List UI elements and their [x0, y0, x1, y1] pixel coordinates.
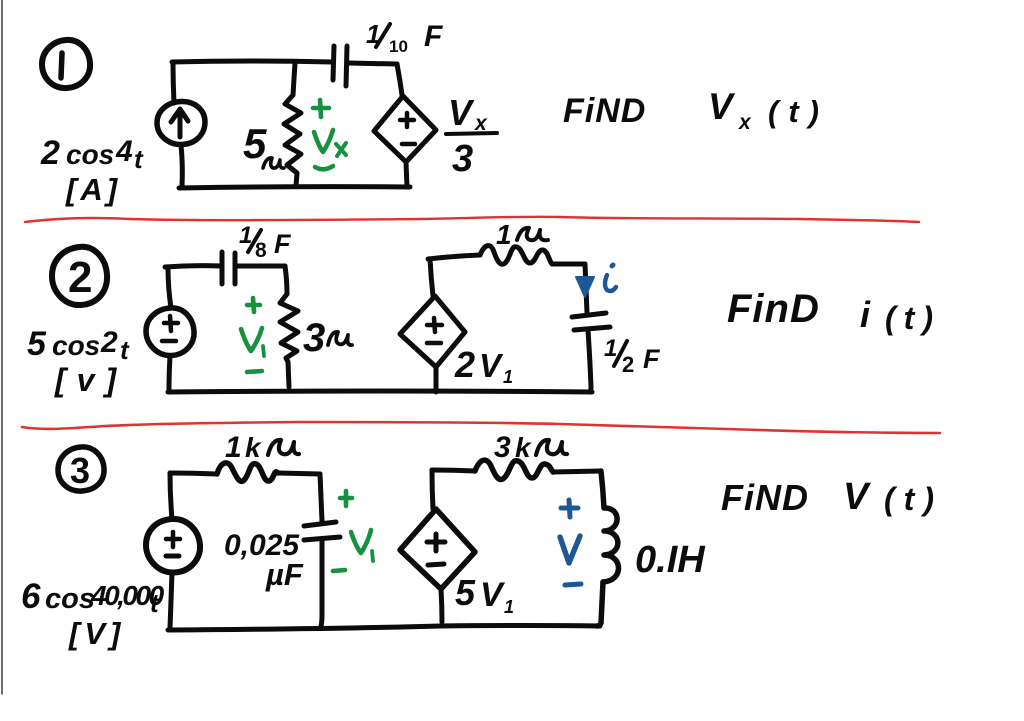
node label plus (blue) V c3: [561, 500, 578, 517]
node label V1 (green) c3: [351, 530, 373, 561]
source label 6cos40000t: [21, 577, 165, 618]
svg-text:2: 2: [100, 326, 118, 359]
wire right corner down to dep source: [397, 64, 402, 95]
wire resistor to right corner c2: [552, 262, 585, 267]
node label minus (green): [315, 166, 333, 169]
value label 1/10 F: [366, 19, 443, 56]
resistor R 1ohm: [480, 246, 552, 265]
task text Find i(t): [727, 287, 941, 336]
svg-text:2: 2: [454, 344, 475, 385]
svg-text:3: 3: [303, 316, 325, 360]
svg-text:(t): (t): [768, 94, 829, 129]
voltage source V 5cos2t: [146, 308, 194, 356]
svg-text:3: 3: [70, 450, 90, 491]
capacitor C1 1/10F right plate: [346, 46, 347, 86]
problem number 3 circle: [58, 447, 104, 491]
capacitor C 1/8F right plate: [233, 253, 238, 284]
svg-text:[A]: [A]: [65, 172, 121, 207]
svg-text:(t): (t): [885, 300, 941, 336]
svg-text:2: 2: [68, 253, 92, 302]
wire bottom rail c3: [168, 626, 600, 631]
resistor R 3k: [475, 460, 553, 479]
task text Find Vx(t): [563, 86, 829, 134]
capacitor C 1/2F bottom plate: [574, 327, 610, 330]
wire source top to top rail c2: [168, 267, 171, 308]
svg-text:F: F: [424, 20, 443, 53]
wire top rail: [172, 61, 333, 62]
svg-text:V: V: [480, 576, 506, 614]
value label 2V1: [454, 344, 513, 387]
wire cap to corner c2: [236, 264, 285, 269]
wire cap to bottom rail c3: [321, 541, 322, 626]
svg-text:t: t: [120, 335, 130, 365]
value label 3k ohm: [494, 431, 532, 464]
wire resistor 3k to right corner: [553, 471, 601, 472]
svg-text:1: 1: [604, 335, 617, 362]
wire top rail left c3: [170, 473, 217, 474]
svg-text:3: 3: [452, 138, 473, 180]
svg-text:FiND: FiND: [721, 477, 809, 518]
svg-text:(t): (t): [884, 481, 943, 517]
dependent source 5V1 diamond: [400, 509, 475, 589]
wire inductor to bottom rail c3: [597, 582, 603, 626]
svg-text:V: V: [448, 92, 475, 133]
wire source bottom to bottom rail c3: [170, 573, 172, 628]
dep source 2V1 minus: [427, 341, 441, 346]
svg-text:cos: cos: [52, 330, 100, 361]
svg-text:k: k: [515, 432, 532, 463]
wire dep source 5V1 bottom: [441, 589, 442, 622]
node label minus (blue) c3: [565, 584, 581, 585]
svg-text:[v]: [v]: [54, 362, 127, 398]
svg-text:8: 8: [255, 239, 267, 262]
dependent source 2V1 diamond: [400, 296, 465, 367]
current source I1: [157, 101, 205, 144]
task text Find V(t): [721, 476, 943, 518]
svg-text:1: 1: [503, 367, 513, 387]
svg-text:5: 5: [243, 120, 267, 167]
capacitor C 0.025uF bottom plate: [304, 537, 340, 540]
value label 5 ohm: [243, 120, 267, 167]
capacitor C 1/2F top plate: [572, 313, 606, 317]
svg-text:FiND: FiND: [563, 92, 646, 130]
svg-text:t: t: [134, 144, 144, 174]
svg-text:3: 3: [494, 431, 511, 464]
svg-text:1: 1: [496, 219, 512, 250]
wire corner down to resistor 3ohm: [285, 266, 287, 294]
svg-text:4: 4: [115, 135, 133, 168]
node label V1 (green) c2: [241, 328, 264, 356]
node label minus (green) c2: [247, 371, 262, 372]
svg-text:1: 1: [225, 431, 242, 464]
svg-text:i: i: [860, 294, 871, 335]
dep source minus: [402, 142, 415, 147]
wire dep source 2V1 top: [430, 259, 433, 296]
svg-text:6: 6: [21, 577, 41, 616]
svg-text:x: x: [738, 111, 752, 134]
svg-text:k: k: [245, 432, 262, 463]
node label minus (green) c3: [333, 570, 345, 571]
value label 1/8 F: [239, 222, 292, 262]
svg-text:V: V: [479, 347, 504, 384]
wire dep source 5V1 top: [432, 470, 433, 509]
value label 1/2 F: [604, 335, 661, 377]
dependent source Vx/3 diamond: [374, 96, 436, 162]
svg-text:cos: cos: [45, 583, 95, 615]
separator red line 1: [25, 217, 919, 222]
node label plus (green) for Vx: [313, 100, 329, 117]
wire cap to right corner: [348, 63, 397, 64]
node label V (blue) c3: [560, 536, 580, 563]
node label plus (green) V1 c3: [340, 491, 352, 506]
svg-text:1: 1: [504, 597, 514, 617]
resistor R 5ohm: [284, 63, 301, 186]
resistor R 3ohm: [280, 294, 298, 387]
svg-text:µF: µF: [265, 557, 304, 592]
svg-text:10: 10: [389, 37, 408, 56]
svg-text:5: 5: [455, 572, 476, 613]
capacitor C 0.025uF top plate: [304, 522, 336, 526]
svg-text:V: V: [708, 86, 736, 127]
wire cap to bottom rail c2: [588, 330, 591, 392]
capacitor C1 1/10F left plate: [333, 46, 334, 80]
current arrow i (blue): [576, 277, 594, 297]
wire source top to top rail: [173, 62, 174, 103]
wire resistor 1k to right corner: [278, 473, 320, 474]
bottom rail wire: [179, 187, 410, 188]
svg-text:5: 5: [27, 325, 47, 363]
wire source top to top rail c3: [170, 473, 172, 519]
svg-text:2: 2: [40, 134, 60, 172]
separator red line 2: [22, 422, 940, 433]
wire right corner down to cap c2: [585, 264, 587, 313]
svg-text:cos: cos: [66, 139, 114, 170]
voltage source V 6cos40000t: [146, 519, 200, 573]
svg-text:[V]: [V]: [68, 616, 125, 651]
wire right branch down to cap c3: [320, 474, 322, 521]
wire dep source to bottom rail: [406, 162, 407, 187]
resistor R 1k: [217, 463, 278, 481]
value label 5V1: [455, 572, 514, 617]
node label plus (green) V1 c2: [247, 298, 260, 312]
problem number 1 circle: [42, 40, 90, 88]
dep source plus: [400, 113, 414, 127]
inductor L 0.1H: [603, 508, 619, 582]
wire top rail right loop c3: [432, 470, 475, 471]
svg-text:F: F: [643, 344, 661, 374]
wire source bottom to bottom rail: [181, 145, 182, 187]
value label Vx/3: [448, 92, 488, 180]
svg-text:V: V: [843, 476, 871, 518]
wire dep source 2V1 bottom: [434, 367, 439, 392]
svg-text:2: 2: [622, 352, 634, 377]
node label Vx (green): [314, 130, 346, 156]
capacitor C 1/8F left plate: [220, 252, 225, 284]
svg-text:F: F: [274, 229, 292, 259]
current label i (blue): [605, 265, 616, 291]
value label 1k ohm: [225, 431, 262, 464]
dep source 5V1 plus: [427, 534, 445, 551]
wire bottom rail c2: [168, 391, 592, 392]
wire source bottom to bottom rail c2: [169, 356, 170, 390]
wire top rail right loop c2: [428, 255, 480, 259]
svg-text:t: t: [150, 588, 160, 618]
wire top rail left c2: [165, 266, 221, 267]
dep source 2V1 plus: [427, 318, 442, 332]
dep source 5V1 minus: [428, 564, 444, 565]
problem number 2 circle: [52, 247, 107, 305]
svg-text:0.IH: 0.IH: [635, 539, 706, 581]
page left border: [1, 0, 3, 694]
wire right corner down to inductor c3: [601, 471, 604, 508]
svg-text:FinD: FinD: [727, 287, 820, 331]
